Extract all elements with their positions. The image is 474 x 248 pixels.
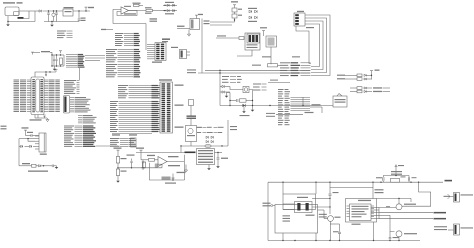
wire Q4 base	[190, 106, 192, 126]
diode D6	[220, 91, 230, 93]
wire input rail	[29, 10, 39, 12]
ground regulator	[50, 22, 54, 27]
wire Q5 base	[318, 210, 325, 219]
resistor R5	[232, 12, 242, 18]
wire net to opamp	[96, 145, 118, 147]
connector J7	[444, 193, 474, 203]
wire ground bus regulator	[44, 21, 79, 22]
net label AREF	[150, 18, 158, 22]
block bottom edge	[112, 134, 152, 136]
label J2 pin	[306, 27, 314, 28]
diode D1	[39, 10, 41, 12]
net labels sensor block	[278, 89, 284, 90]
ground tap rail	[240, 107, 250, 116]
ground mid	[251, 106, 255, 112]
resistor R12 vertical	[142, 162, 145, 168]
input rect upper	[283, 194, 316, 210]
snubber resistor R16	[391, 171, 406, 182]
power flag R stack	[231, 1, 238, 7]
capacitor C17	[330, 224, 341, 241]
wire bus line 2	[305, 18, 327, 73]
resistor pack RP1	[131, 138, 137, 147]
wire sensor net	[136, 152, 185, 154]
resistor R13	[141, 153, 158, 162]
wire regulator output	[73, 10, 90, 11]
MCU right pins	[44, 80, 60, 113]
optocoupler U7	[295, 197, 313, 213]
capacitor C10	[53, 55, 55, 66]
net labels U1 block2	[106, 49, 117, 50]
wire sense loop	[7, 11, 35, 22]
net labels U1 block1	[115, 33, 124, 34]
ground caps	[53, 66, 57, 71]
wire battery to rail	[19, 11, 29, 19]
LED indicator	[230, 87, 249, 93]
labels above rows	[262, 56, 300, 57]
wire feedback bottom	[150, 155, 185, 181]
thermistor RT1	[162, 177, 177, 184]
ground C15	[217, 165, 219, 166]
op-amp U6	[158, 157, 167, 167]
capacitor C11	[55, 55, 57, 66]
resistor R2 top	[133, 3, 144, 7]
wire Q6 base	[379, 206, 396, 207]
diode D7	[25, 145, 36, 147]
power flag caps	[59, 51, 62, 53]
capacitor C14	[172, 172, 186, 180]
net label Q4	[187, 116, 197, 119]
J4 pin labels	[70, 97, 74, 99]
wire cluster down	[219, 95, 221, 106]
input rect outer	[275, 205, 318, 234]
ground Q4	[184, 165, 187, 173]
output line B	[379, 218, 446, 220]
ground flag mid	[225, 93, 230, 98]
wire bus line 1	[305, 15, 330, 76]
op-amp U3A label	[124, 6, 131, 7]
diode pair DG1	[206, 136, 213, 138]
wire RC row	[229, 93, 236, 107]
label right of rect	[319, 214, 327, 218]
diode D8	[19, 145, 23, 147]
wire U8 top net	[330, 182, 384, 198]
sensor row 3	[350, 87, 390, 90]
net labels above opamp	[110, 138, 120, 139]
net labels serial bus	[280, 62, 290, 63]
resistor R17	[239, 37, 244, 40]
wire Q1 net drop	[201, 30, 203, 74]
wire right drop	[227, 120, 229, 146]
diode pair DG2	[206, 140, 213, 142]
title text power input	[3, 2, 15, 3]
sensor row 4	[350, 90, 390, 93]
power node flag	[395, 165, 404, 176]
wire stack output	[210, 18, 235, 25]
wire rail to rect	[283, 182, 316, 194]
wire Q4 emitter	[181, 142, 191, 153]
capacitor C4 output	[78, 11, 86, 22]
power flag R13	[136, 148, 144, 153]
net label row	[22, 163, 30, 164]
diode pair D3	[248, 8, 257, 13]
net label sensor	[185, 152, 196, 154]
wire label stub	[101, 29, 113, 30]
diode D9	[36, 165, 52, 167]
wire J3 loop	[19, 139, 28, 166]
net labels block C	[64, 126, 74, 127]
transistor sensor Q3	[155, 164, 158, 169]
wire opto down	[237, 47, 271, 64]
wire sensor drop	[302, 97, 304, 106]
wire LED return	[249, 90, 253, 106]
transistor Q5	[324, 216, 341, 241]
wire bus line 5	[296, 26, 311, 64]
wire net drop	[79, 68, 81, 80]
thermostat box S1	[333, 94, 347, 108]
diode pair row 1	[163, 2, 177, 7]
power flag sensors	[370, 70, 380, 74]
capacitor C16	[329, 182, 339, 214]
sensor text block	[197, 149, 215, 165]
wire divider tap	[118, 167, 162, 168]
wire opto input	[216, 35, 239, 38]
connector J2	[294, 11, 305, 26]
resistor R14 vertical	[189, 100, 194, 106]
wire U6 inverting	[158, 164, 162, 168]
ground MCU	[46, 118, 49, 122]
capacitor C8	[26, 132, 40, 137]
power flag opamp	[114, 148, 122, 153]
output line A	[379, 212, 446, 214]
net labels lower pair	[266, 112, 314, 117]
capacitor C12	[44, 115, 46, 118]
wire opamp output rail	[129, 10, 166, 12]
resistor R7	[19, 164, 36, 167]
voltage regulator U2	[63, 7, 74, 16]
op-amp U3A	[121, 7, 129, 14]
transistor Q8	[264, 33, 277, 47]
capacitor C15	[217, 158, 228, 165]
wire feedback loop	[117, 11, 137, 16]
capacitor C21	[389, 232, 399, 241]
resistor R10	[116, 153, 126, 164]
labels right of drop	[230, 126, 237, 130]
capacitor C2 electrolytic	[52, 11, 55, 22]
connector J8	[434, 224, 473, 235]
controller U8	[347, 200, 375, 221]
resistor R18 row1	[252, 64, 280, 67]
U7 left wires	[283, 204, 295, 210]
resistor R4	[232, 7, 242, 12]
wire long rails	[187, 69, 310, 73]
ground Q1	[187, 30, 190, 37]
MCU U5 body	[31, 77, 44, 115]
power flag VCC out	[85, 7, 95, 11]
wire U8 to bottom rail	[373, 222, 375, 241]
MCU bottom wires	[30, 115, 48, 121]
resistor R19	[240, 99, 254, 102]
label inside rect right	[306, 215, 315, 216]
sensor row 1	[337, 73, 372, 80]
controller box	[346, 199, 377, 223]
battery connector J1	[5, 7, 19, 16]
wire aux net	[268, 80, 290, 83]
V+ label	[445, 180, 453, 182]
power flag MCU	[31, 51, 52, 55]
fuse F1	[205, 144, 211, 147]
label BT1	[18, 17, 24, 19]
net stub right of Q1	[202, 19, 210, 30]
MCU left pins	[14, 80, 32, 113]
ground chain	[55, 166, 59, 169]
wire Q4 collector	[197, 127, 202, 129]
IC1 pin rows	[66, 54, 77, 56]
label under chain	[28, 171, 48, 172]
transistor Q4	[186, 126, 197, 142]
MCU top power loop	[35, 70, 58, 77]
ground R11	[117, 180, 119, 181]
resistor R8 vertical	[60, 58, 63, 65]
diode D5	[220, 85, 230, 87]
diode pair row 2	[163, 10, 177, 15]
net labels block B	[78, 115, 82, 117]
wire rect grounds	[283, 233, 316, 241]
diode pair D4	[248, 16, 257, 22]
wire PSU bottom rail	[268, 240, 420, 241]
net labels LED nets	[253, 84, 261, 85]
snubber loop	[383, 175, 409, 176]
wire Q6 to V+ zigzag	[402, 182, 431, 206]
net labels MCU right block A	[64, 80, 76, 81]
J5 refdes label	[162, 39, 170, 43]
J6 left net labels lower	[110, 101, 118, 102]
snubber cap C18	[376, 176, 384, 183]
opto isolator U9	[245, 33, 260, 50]
wire PSU left edge	[267, 182, 269, 240]
wire U6 output	[167, 161, 184, 163]
J5 left wires	[147, 44, 155, 46]
label rows near Q	[222, 76, 229, 77]
sensor row 2	[337, 78, 372, 81]
resistor R11	[116, 163, 126, 180]
sensor block wires	[291, 96, 311, 98]
ground battery	[6, 22, 10, 27]
snubber cap C19	[408, 176, 416, 183]
connector J6 main	[159, 79, 173, 133]
capacitor C3	[55, 11, 58, 22]
net labels aux block	[57, 31, 66, 32]
connector J5 upper	[152, 43, 166, 63]
U6 labels	[168, 156, 180, 166]
load rows	[197, 127, 202, 128]
wire rail to regulator	[43, 10, 64, 12]
wire bottom row	[180, 145, 228, 146]
J6 left net labels upper	[118, 85, 128, 86]
connector J3	[35, 133, 47, 155]
connector J4	[64, 96, 70, 114]
edge labels left	[1, 126, 7, 130]
AC input J9	[263, 203, 276, 207]
label under U8	[352, 224, 361, 225]
U7 inner text	[283, 215, 291, 221]
wire IC1 to labels	[85, 56, 105, 61]
wire opamp input net	[113, 10, 146, 51]
power flag Q1	[195, 14, 203, 18]
ground under block	[207, 165, 211, 171]
U7 right wires	[312, 198, 331, 208]
wire vertical drop	[219, 70, 220, 95]
junction dots input caps	[48, 10, 57, 11]
wire bus line 3	[305, 21, 323, 70]
power flag opto	[260, 27, 267, 33]
resistor R3	[145, 7, 153, 14]
capacitor C22	[236, 99, 238, 102]
transistor Q7	[396, 231, 417, 241]
decoupling caps loop	[51, 54, 64, 66]
net labels U1 block3	[106, 64, 117, 65]
wire Q6 collector net	[377, 198, 412, 204]
capacitor C20 at R13	[141, 160, 144, 170]
power flag J3	[22, 127, 29, 132]
capacitor C13	[127, 155, 135, 168]
J6 right labels	[175, 85, 184, 128]
ISP header right	[171, 47, 190, 59]
capacitor C9	[52, 165, 56, 168]
transistor Q1 with base resistor	[190, 18, 200, 30]
wire sensor net right	[310, 104, 322, 113]
diode D10 on rail	[243, 104, 246, 107]
wire Q7 base	[379, 215, 395, 231]
wire analog rail	[220, 105, 333, 106]
wire J3 pin 2	[27, 138, 35, 141]
wire PSU top rail	[268, 182, 443, 183]
wire sensor to cap	[215, 152, 223, 158]
capacitor C1	[47, 11, 50, 22]
wire base drive	[177, 26, 190, 29]
wire U8 output bus	[371, 208, 379, 219]
transistor Q6	[396, 204, 416, 210]
wire bus line 4	[305, 24, 320, 67]
